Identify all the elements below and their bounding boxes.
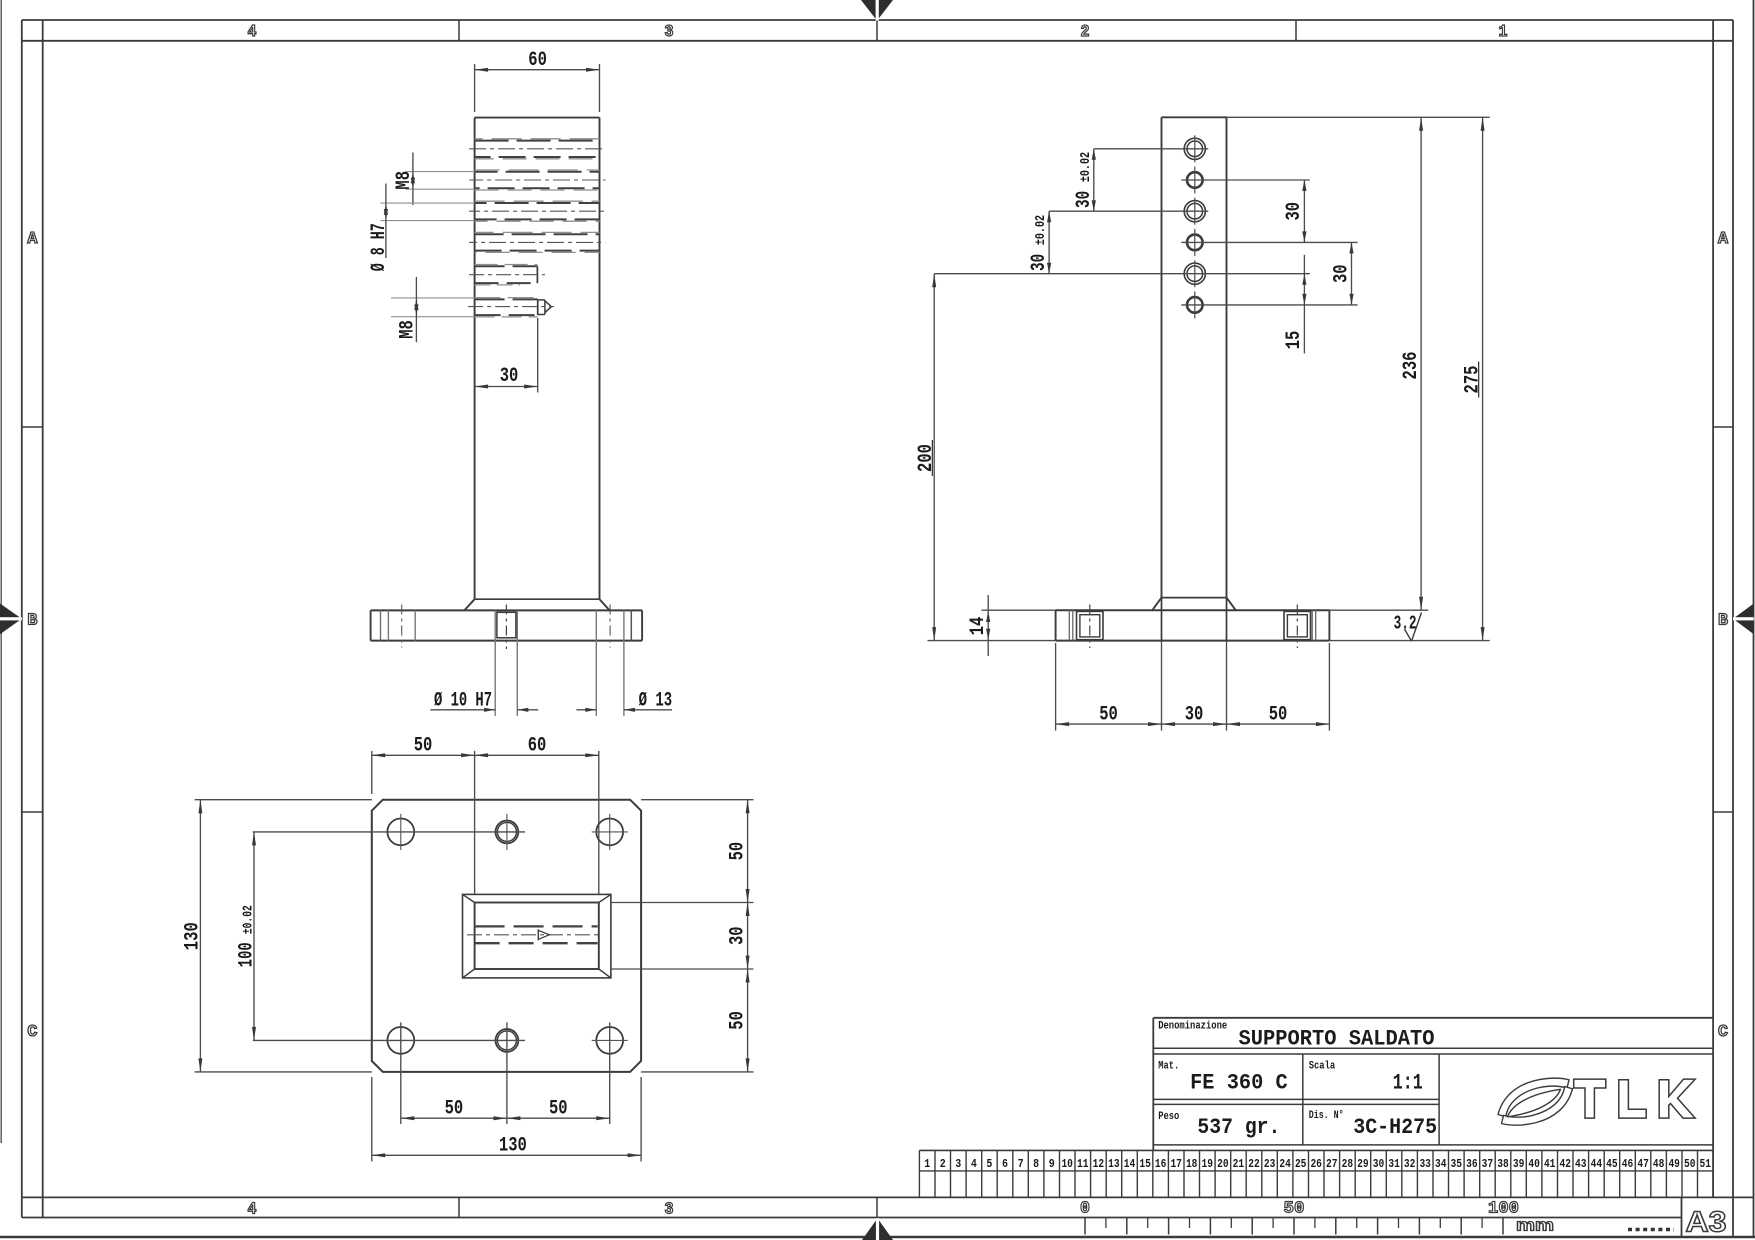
side view: base plate: [1056, 609, 1330, 611]
svg-text:51: 51: [1700, 1158, 1712, 1171]
dim M8 (stud h6): [391, 297, 475, 299]
svg-text:Ø 13: Ø 13: [639, 690, 673, 713]
svg-text:41: 41: [1544, 1158, 1556, 1171]
row leader lines (plan): [253, 831, 525, 833]
svg-text:27: 27: [1326, 1158, 1338, 1171]
plan view: base plate outline with chamfered corners: [372, 800, 641, 1072]
dotted mark: [1628, 1228, 1674, 1231]
svg-text:26: 26: [1310, 1158, 1322, 1171]
svg-text:4: 4: [248, 1201, 257, 1220]
side plate hole box right (Ø13+Ø10 section): [1284, 611, 1311, 639]
plan view: boss inner (column section): [475, 903, 599, 970]
hole centre cross arms: [400, 814, 402, 850]
Ø13 hole left (front): [387, 610, 389, 640]
svg-text:30: 30: [726, 926, 749, 945]
centering mark top: [861, 0, 893, 21]
svg-text:50: 50: [1684, 1158, 1696, 1171]
svg-text:50: 50: [549, 1097, 568, 1120]
sheet edge right: [1753, 0, 1755, 1237]
svg-text:18: 18: [1186, 1158, 1198, 1171]
svg-text:29: 29: [1357, 1158, 1369, 1171]
dim 60 (front column width): [474, 64, 476, 112]
front view: column outline: [475, 117, 600, 119]
svg-text:7: 7: [1018, 1158, 1024, 1171]
svg-text:A: A: [1718, 230, 1729, 249]
dim 30±0.02 h3-h5: [1048, 211, 1050, 274]
dim Ø10H7: [430, 709, 495, 711]
svg-text:31: 31: [1388, 1158, 1400, 1171]
svg-text:3: 3: [665, 23, 674, 42]
svg-text:C: C: [1718, 1023, 1728, 1042]
dim 50/50 (plan bottom holes): [400, 1022, 402, 1124]
svg-text:25: 25: [1295, 1158, 1307, 1171]
dim 200: [928, 640, 1056, 642]
svg-text:8: 8: [1033, 1158, 1039, 1171]
svg-text:Denominazione: Denominazione: [1158, 1021, 1227, 1033]
svg-text:130: 130: [499, 1135, 527, 1158]
svg-text:28: 28: [1342, 1158, 1354, 1171]
svg-text:35: 35: [1451, 1158, 1463, 1171]
centering mark bottom: [862, 1218, 893, 1240]
svg-text:130: 130: [182, 922, 205, 950]
svg-text:6: 6: [1002, 1158, 1008, 1171]
zone dividers bottom band: [458, 1197, 460, 1217]
svg-text:Ø 10 H7: Ø 10 H7: [434, 690, 492, 713]
dim 275: [1329, 640, 1489, 642]
svg-text:Ø 8 H7: Ø 8 H7: [368, 223, 391, 271]
svg-text:M8: M8: [393, 171, 416, 190]
svg-text:48: 48: [1653, 1158, 1665, 1171]
outer frame: [22, 19, 1733, 21]
dim Ø8H7 (hole h3): [381, 202, 475, 204]
M8 through hole h1 (hidden): [475, 140, 600, 142]
svg-text:33: 33: [1419, 1158, 1431, 1171]
dim M8 (hole h2): [406, 171, 475, 173]
Ø13 hole right (front) with extensions: [595, 610, 597, 716]
inner frame: [22, 40, 1733, 42]
svg-text:15: 15: [1283, 331, 1306, 350]
svg-text:49: 49: [1668, 1158, 1680, 1171]
svg-text:C: C: [27, 1023, 37, 1042]
svg-text:40: 40: [1528, 1158, 1540, 1171]
svg-text:1: 1: [1499, 23, 1508, 42]
svg-text:60: 60: [528, 49, 547, 72]
svg-text:4: 4: [248, 23, 257, 42]
svg-text:B: B: [1718, 612, 1728, 631]
svg-text:50: 50: [1099, 703, 1118, 726]
zone dividers right band: [1713, 426, 1733, 428]
svg-text:SUPPORTO SALDATO: SUPPORTO SALDATO: [1239, 1026, 1435, 1051]
svg-text:50: 50: [1269, 703, 1288, 726]
plan holes: corner Ø13 and center Ø10H7: [387, 819, 414, 846]
svg-text:19: 19: [1202, 1158, 1214, 1171]
front view: column flare to plate: [475, 598, 600, 600]
svg-text:10: 10: [1061, 1158, 1073, 1171]
svg-text:537 gr.: 537 gr.: [1197, 1115, 1280, 1140]
dim 30 h4-h6: [1351, 242, 1353, 305]
Ø10H7 hole center (front): [494, 610, 496, 716]
zone dividers top band: [458, 20, 460, 41]
svg-text:0: 0: [1080, 1200, 1090, 1219]
svg-text:30: 30: [1185, 703, 1204, 726]
svg-text:30: 30: [1283, 202, 1306, 221]
boss hidden hole band: [475, 925, 598, 927]
svg-text:47: 47: [1637, 1158, 1649, 1171]
svg-text:B: B: [27, 612, 37, 631]
sheet edge bottom: [0, 1236, 1755, 1238]
A3 box: [1681, 1197, 1683, 1237]
svg-text:14: 14: [967, 617, 990, 636]
svg-text:44: 44: [1591, 1158, 1603, 1171]
number strip 1-51: [919, 1149, 1713, 1151]
dim 50/30/50 (side bottom): [1055, 643, 1057, 731]
hole h2 (hidden): [475, 171, 600, 173]
svg-text:236: 236: [1400, 352, 1423, 380]
centering mark left: [0, 604, 22, 635]
dim 100±0.02 (plan): [253, 832, 255, 1041]
svg-text:Dis. N°: Dis. N°: [1309, 1110, 1344, 1122]
svg-text:M8: M8: [396, 320, 419, 339]
title block outline: [1153, 1017, 1713, 1019]
svg-text:20: 20: [1217, 1158, 1229, 1171]
svg-text:2: 2: [940, 1158, 946, 1171]
svg-text:30: 30: [1330, 264, 1353, 283]
svg-text:45: 45: [1606, 1158, 1618, 1171]
svg-text:15: 15: [1139, 1158, 1151, 1171]
svg-text:30: 30: [1373, 1158, 1385, 1171]
centering mark right: [1733, 604, 1754, 635]
dim 15 h5-h6: [1303, 255, 1305, 354]
svg-text:17: 17: [1170, 1158, 1182, 1171]
svg-text:50: 50: [445, 1097, 464, 1120]
svg-text:3: 3: [955, 1158, 961, 1171]
svg-text:50: 50: [726, 1011, 749, 1030]
blind hole h5 (hidden): [475, 265, 538, 267]
svg-text:200: 200: [915, 444, 938, 472]
sheet edge left: [0, 0, 2, 1143]
svg-text:32: 32: [1404, 1158, 1416, 1171]
svg-text:50: 50: [726, 842, 749, 861]
svg-text:14: 14: [1124, 1158, 1136, 1171]
svg-text:36: 36: [1466, 1158, 1478, 1171]
svg-text:22: 22: [1248, 1158, 1260, 1171]
dim 50/30/50 (plan right): [641, 799, 753, 801]
svg-text:1: 1: [924, 1158, 930, 1171]
svg-text:3: 3: [665, 1201, 674, 1220]
dim 130 (plan bottom): [371, 1077, 373, 1162]
svg-text:23: 23: [1264, 1158, 1276, 1171]
side plate hole box left (Ø13+Ø10 section): [1077, 611, 1104, 639]
svg-text:43: 43: [1575, 1158, 1587, 1171]
dim Ø13: [576, 709, 596, 711]
svg-text:Scala: Scala: [1309, 1061, 1336, 1073]
plan view: boss outer (flare footprint): [463, 894, 611, 978]
svg-text:1:1: 1:1: [1393, 1071, 1423, 1096]
svg-text:24: 24: [1279, 1158, 1291, 1171]
TLK logo mark: [1498, 1078, 1573, 1125]
svg-text:50: 50: [414, 735, 433, 758]
side view holes h1..h6 circles: [1184, 138, 1205, 159]
svg-text:16: 16: [1155, 1158, 1167, 1171]
hole leader lines: [1094, 148, 1209, 150]
svg-text:37: 37: [1482, 1158, 1494, 1171]
stud cone mark in plan: [537, 929, 539, 940]
svg-text:38: 38: [1497, 1158, 1509, 1171]
svg-text:12: 12: [1093, 1158, 1105, 1171]
svg-text:5: 5: [986, 1158, 992, 1171]
TLK logo letters: [1574, 1079, 1696, 1118]
svg-text:4: 4: [971, 1158, 977, 1171]
svg-text:42: 42: [1560, 1158, 1572, 1171]
dim 50/60 (plan top): [371, 751, 373, 794]
svg-text:A3: A3: [1686, 1207, 1727, 1239]
side view: flare: [1162, 597, 1227, 599]
ruler ticks: [1084, 1218, 1086, 1235]
svg-text:mm: mm: [1516, 1217, 1554, 1235]
dim 30±0.02 h1-h3: [1093, 149, 1095, 211]
svg-text:100: 100: [1488, 1200, 1519, 1219]
zone dividers left band: [22, 426, 43, 428]
svg-text:39: 39: [1513, 1158, 1525, 1171]
svg-text:FE 360 C: FE 360 C: [1190, 1071, 1288, 1096]
svg-text:2: 2: [1081, 23, 1090, 42]
dim 130 (plan left): [195, 799, 372, 801]
hole h4 (hidden): [475, 233, 600, 235]
M8 stud hole h6 with cone tip: [475, 298, 538, 300]
svg-text:11: 11: [1077, 1158, 1089, 1171]
svg-text:21: 21: [1233, 1158, 1245, 1171]
plate corner radius lines: [380, 610, 382, 640]
side view: column lines through flare/plate + dim extensions: [1161, 598, 1163, 641]
svg-text:Peso: Peso: [1158, 1111, 1179, 1123]
svg-text:60: 60: [528, 735, 547, 758]
dim 30 h2-h4: [1303, 180, 1305, 242]
hole h3 Ø8H7 (hidden): [475, 202, 600, 204]
side view: column outline: [1162, 116, 1227, 118]
svg-text:50: 50: [1284, 1200, 1305, 1219]
svg-text:13: 13: [1108, 1158, 1120, 1171]
boss corner connectors: [463, 894, 475, 902]
dim 14 (plate thickness): [982, 609, 1056, 611]
svg-text:275: 275: [1462, 366, 1485, 394]
svg-text:A: A: [27, 230, 38, 249]
dim 236: [1227, 116, 1490, 118]
svg-text:46: 46: [1622, 1158, 1634, 1171]
svg-text:34: 34: [1435, 1158, 1447, 1171]
svg-text:Mat.: Mat.: [1158, 1061, 1179, 1073]
svg-text:9: 9: [1049, 1158, 1055, 1171]
svg-text:30: 30: [500, 365, 519, 388]
dim 30 (stud depth): [537, 318, 539, 393]
side plate corner radius lines: [1068, 610, 1070, 640]
svg-text:3C-H275: 3C-H275: [1353, 1115, 1437, 1140]
front view: base plate: [371, 609, 642, 611]
